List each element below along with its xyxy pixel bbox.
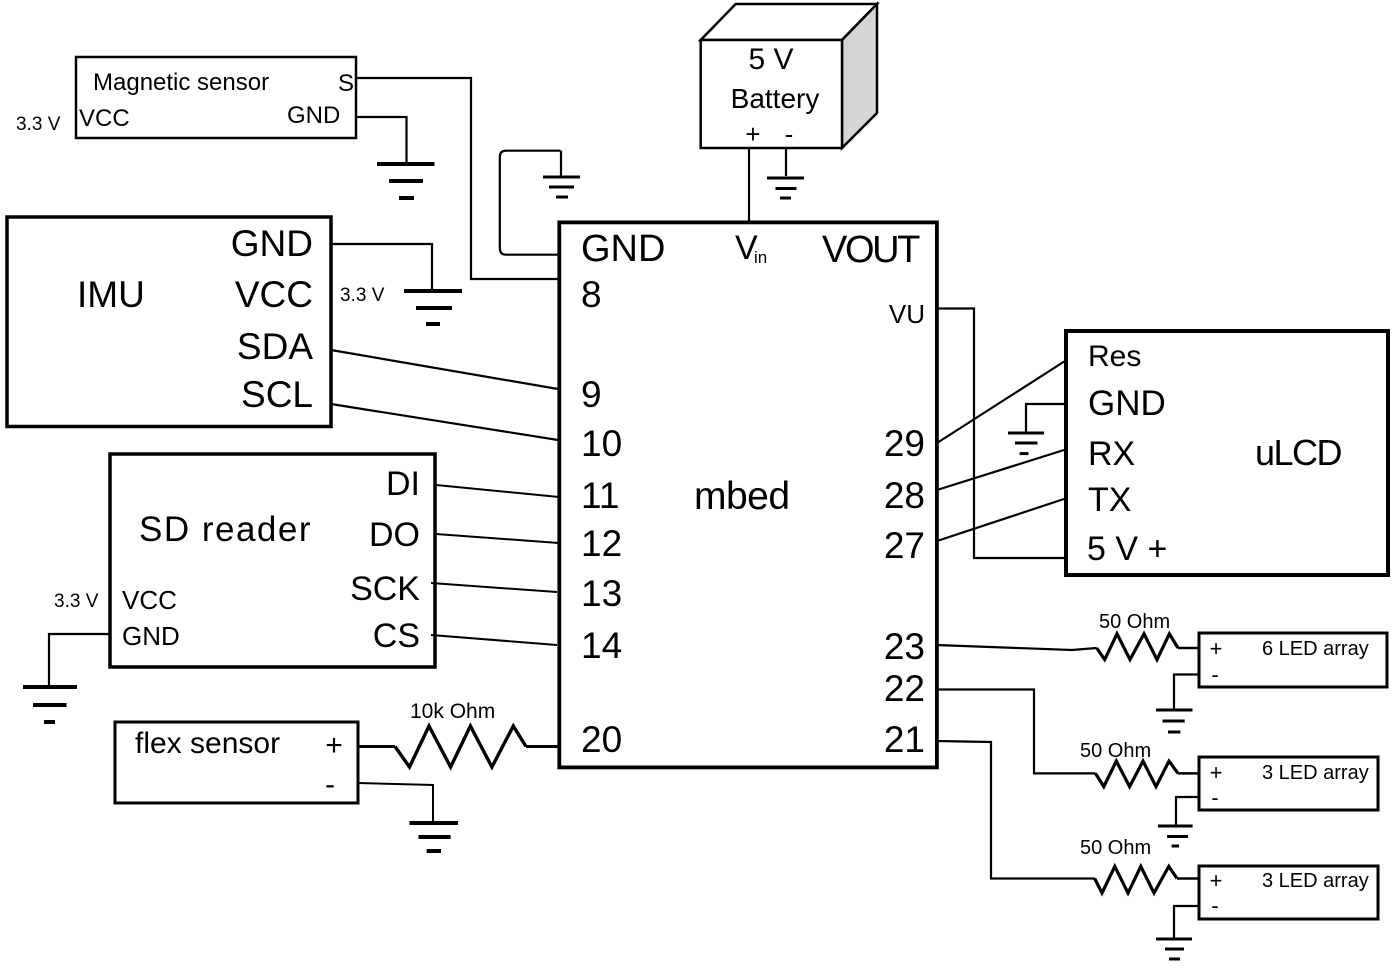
wire: uLCD GND to ground [1026, 404, 1066, 432]
battery top face [701, 4, 877, 40]
svg-text:10k Ohm: 10k Ohm [410, 700, 495, 723]
svg-text:GND: GND [1088, 384, 1166, 423]
wire: magnetic sensor S to mbed pin 8 [356, 78, 559, 279]
svg-text:flex sensor: flex sensor [135, 727, 280, 760]
svg-text:SCK: SCK [350, 570, 420, 608]
svg-text:GND: GND [122, 621, 180, 651]
svg-text:GND: GND [287, 102, 340, 129]
svg-text:mbed: mbed [694, 475, 790, 518]
wire: mbed pin 21 to resistor R3 [936, 741, 1095, 879]
svg-text:21: 21 [884, 719, 925, 760]
wire: mbed pin 27 to uLCD TX [937, 499, 1064, 541]
svg-text:VCC: VCC [79, 105, 130, 132]
svg-text:9: 9 [581, 374, 602, 415]
wire: 3 LED array (middle) - to ground [1176, 797, 1199, 825]
svg-text:VU: VU [889, 299, 925, 329]
svg-text:20: 20 [581, 719, 622, 760]
SD reader box [110, 454, 435, 667]
wire: resistor R3 to 3 LED array + [1177, 877, 1199, 880]
resistor R2 50 Ohm [1096, 761, 1179, 787]
ground (SD reader) [23, 687, 77, 722]
wire: mbed GND loop to ground [500, 151, 561, 255]
wire: mbed pin 28 to uLCD RX [937, 450, 1064, 490]
wire: magnetic sensor GND to ground [356, 117, 407, 162]
svg-text:5 V +: 5 V + [1087, 530, 1167, 568]
wire: SD reader DO to mbed pin 12 [436, 534, 559, 543]
svg-text:Res: Res [1088, 340, 1141, 373]
svg-text:-: - [785, 119, 794, 149]
svg-text:uLCD: uLCD [1255, 432, 1342, 473]
svg-text:VOUT: VOUT [822, 229, 920, 271]
wire: SD reader SCK to mbed pin 13 [431, 583, 557, 592]
svg-text:29: 29 [884, 423, 925, 464]
wire: mbed pin 22 to resistor R2 [936, 690, 1096, 774]
3 LED array box (middle) [1199, 757, 1378, 810]
svg-text:in: in [754, 248, 767, 267]
svg-text:50 Ohm: 50 Ohm [1080, 837, 1151, 859]
wire: mbed VU to uLCD 5 V + [936, 309, 1066, 559]
wire: IMU SCL to mbed pin 10 [331, 404, 558, 440]
svg-text:50 Ohm: 50 Ohm [1080, 740, 1151, 762]
resistor R3 50 Ohm [1095, 866, 1177, 893]
svg-text:VCC: VCC [122, 585, 177, 615]
svg-text:+: + [325, 729, 343, 762]
svg-text:3 LED array: 3 LED array [1262, 870, 1369, 892]
wire: SD reader GND to ground [49, 634, 110, 686]
wire: mbed pin 29 to uLCD Res [937, 361, 1065, 443]
uLCD box [1066, 331, 1388, 575]
battery front face [701, 40, 842, 148]
ground (3 LED array middle) [1158, 826, 1193, 846]
svg-text:22: 22 [884, 668, 925, 709]
mbed box [559, 222, 937, 767]
svg-text:SCL: SCL [241, 374, 313, 415]
6 LED array box [1199, 633, 1387, 687]
svg-text:50 Ohm: 50 Ohm [1099, 611, 1170, 633]
svg-text:10: 10 [581, 423, 622, 464]
svg-text:3.3 V: 3.3 V [54, 591, 99, 612]
wire: flex sensor + lead to resistor [358, 745, 395, 748]
svg-text:SD reader: SD reader [139, 510, 312, 549]
wire: flex sensor - to ground [358, 783, 433, 822]
ground (6 LED array) [1156, 710, 1193, 732]
svg-text:IMU: IMU [77, 274, 145, 315]
ground (battery) [767, 178, 804, 198]
svg-text:+: + [1210, 636, 1223, 661]
svg-text:-: - [325, 768, 335, 801]
svg-text:-: - [1211, 662, 1218, 687]
svg-text:23: 23 [884, 626, 925, 667]
wire: resistor R1 to 6 LED array + [1178, 647, 1199, 650]
resistor R1 50 Ohm [1097, 634, 1178, 660]
flex sensor box [115, 722, 358, 803]
wire: resistor R2 to 3 LED array + [1178, 772, 1199, 775]
svg-text:3.3 V: 3.3 V [16, 114, 61, 135]
svg-text:6 LED array: 6 LED array [1262, 638, 1369, 660]
ground (3 LED array bottom) [1156, 939, 1192, 959]
ground (magnetic sensor) [377, 164, 435, 198]
wire: 6 LED array - to ground [1174, 675, 1199, 710]
svg-text:13: 13 [581, 573, 622, 614]
svg-text:-: - [1211, 785, 1218, 810]
wire: SD reader DI to mbed pin 11 [436, 485, 559, 497]
ground (IMU) [404, 291, 462, 324]
wire: resistor to mbed pin 20 [526, 745, 559, 748]
svg-text:GND: GND [231, 223, 313, 264]
svg-text:DO: DO [369, 516, 420, 554]
ground (uLCD) [1008, 433, 1044, 454]
svg-text:SDA: SDA [237, 326, 313, 367]
svg-text:Magnetic sensor: Magnetic sensor [93, 69, 269, 96]
wire: 3 LED array (bottom) - to ground [1174, 906, 1199, 938]
svg-text:28: 28 [884, 475, 925, 516]
wire: mbed pin 23 to resistor R1 [936, 645, 1097, 650]
svg-text:DI: DI [386, 465, 420, 503]
svg-text:8: 8 [581, 274, 602, 315]
battery right face [842, 4, 877, 148]
wire: battery - to ground [785, 149, 787, 176]
IMU box [7, 217, 331, 427]
svg-text:VCC: VCC [235, 274, 313, 315]
svg-text:GND: GND [581, 228, 665, 270]
svg-text:RX: RX [1088, 435, 1135, 473]
svg-text:Battery: Battery [731, 83, 820, 114]
svg-text:3 LED array: 3 LED array [1262, 762, 1369, 784]
svg-text:27: 27 [884, 525, 925, 566]
svg-text:+: + [1210, 760, 1223, 785]
resistor 10k Ohm [395, 726, 526, 767]
svg-text:14: 14 [581, 625, 622, 666]
svg-text:3.3 V: 3.3 V [340, 285, 385, 306]
svg-text:+: + [745, 119, 760, 149]
svg-text:TX: TX [1088, 481, 1131, 519]
3 LED array box (bottom) [1199, 866, 1378, 919]
svg-text:+: + [1210, 868, 1223, 893]
svg-text:12: 12 [581, 523, 622, 564]
wire: ground stub (mbed GND) [560, 151, 562, 176]
ground (mbed GND loop) [543, 177, 580, 197]
wire: IMU SDA to mbed pin 9 [331, 350, 558, 389]
wire: battery + to mbed Vin [748, 148, 750, 222]
svg-text:-: - [1211, 893, 1218, 918]
svg-text:CS: CS [373, 617, 420, 655]
svg-text:5 V: 5 V [748, 43, 793, 76]
wire: SD reader CS to mbed pin 14 [431, 635, 557, 645]
wire: IMU GND to ground [331, 244, 432, 290]
svg-text:11: 11 [581, 475, 619, 516]
svg-text:S: S [338, 70, 354, 97]
ground (flex sensor) [410, 823, 459, 851]
magnetic sensor box [76, 57, 356, 138]
